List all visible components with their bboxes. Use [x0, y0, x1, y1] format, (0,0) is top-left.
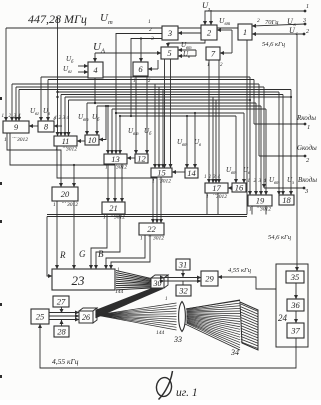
- svg-text:1: 1: [306, 4, 309, 10]
- svg-text:5: 5: [167, 48, 171, 58]
- svg-text:2: 2: [257, 18, 260, 24]
- svg-text:10: 10: [88, 135, 97, 145]
- svg-text:36: 36: [290, 300, 300, 310]
- svg-text:Вкоды: Вкоды: [298, 176, 317, 184]
- svg-text:1: 1: [2, 114, 5, 119]
- svg-text:26: 26: [82, 313, 90, 322]
- svg-text:А: А: [100, 48, 105, 55]
- svg-text:29: 29: [205, 274, 214, 284]
- svg-text:т: т: [108, 19, 113, 26]
- svg-text:вт: вт: [133, 132, 139, 137]
- svg-text:3012: 3012: [152, 236, 164, 242]
- svg-text:иг. 1: иг. 1: [176, 387, 198, 399]
- svg-text:22: 22: [147, 224, 156, 234]
- svg-text:1: 1: [4, 137, 7, 143]
- svg-text:3: 3: [150, 36, 154, 42]
- svg-text:3012: 3012: [16, 137, 28, 143]
- svg-text:144: 144: [156, 329, 165, 336]
- svg-text:2: 2: [306, 29, 309, 35]
- svg-text:···: ···: [61, 201, 66, 207]
- svg-text:3012: 3012: [65, 147, 77, 153]
- svg-text:1: 1: [55, 147, 58, 153]
- svg-text:1: 1: [165, 297, 168, 302]
- svg-text:18: 18: [282, 195, 291, 205]
- svg-text:1: 1: [53, 202, 56, 208]
- svg-text:в: в: [248, 171, 250, 176]
- svg-text:1: 1: [148, 19, 151, 25]
- svg-text:20: 20: [61, 189, 70, 199]
- svg-text:14: 14: [187, 168, 196, 178]
- svg-text:з: з: [291, 181, 294, 186]
- svg-text:1: 1: [105, 165, 108, 171]
- svg-text:37: 37: [290, 326, 300, 336]
- svg-text:3012: 3012: [159, 179, 171, 185]
- svg-text:3012: 3012: [259, 207, 271, 213]
- svg-text:12: 12: [137, 154, 146, 164]
- svg-text:1: 1: [207, 63, 210, 68]
- svg-text:34: 34: [230, 348, 239, 357]
- svg-text:G: G: [79, 249, 86, 259]
- svg-text:Gкоды: Gкоды: [297, 144, 317, 152]
- svg-text:16: 16: [235, 183, 244, 193]
- svg-text:1: 1: [117, 268, 120, 273]
- svg-text:3012: 3012: [113, 215, 125, 221]
- svg-text:1: 1: [249, 207, 252, 213]
- svg-text:54,6 кГц: 54,6 кГц: [262, 41, 286, 48]
- svg-text:70Гц: 70Гц: [265, 19, 279, 26]
- svg-text:23: 23: [72, 273, 86, 288]
- svg-text:25: 25: [36, 312, 45, 322]
- svg-text:3012: 3012: [66, 202, 78, 208]
- svg-text:вт: вт: [225, 22, 231, 27]
- svg-text:35: 35: [290, 272, 300, 282]
- svg-text:в: в: [199, 143, 201, 148]
- svg-text:1: 1: [243, 27, 247, 37]
- svg-text:1: 1: [206, 194, 209, 200]
- svg-text:144: 144: [115, 288, 124, 295]
- svg-text:з: з: [207, 7, 210, 13]
- svg-text:вт: вт: [274, 181, 280, 186]
- svg-text:3: 3: [167, 28, 172, 38]
- svg-text:28: 28: [57, 327, 66, 337]
- svg-text:1: 1: [307, 124, 310, 131]
- svg-text:R: R: [59, 250, 66, 260]
- svg-text:33: 33: [173, 335, 182, 344]
- svg-text:4,55 кГц: 4,55 кГц: [228, 267, 252, 274]
- svg-text:вг: вг: [68, 70, 72, 75]
- svg-text:27: 27: [57, 297, 66, 307]
- svg-text:1: 1: [152, 179, 155, 185]
- svg-text:3012: 3012: [115, 165, 127, 171]
- svg-text:1: 1: [133, 79, 136, 84]
- svg-text:21: 21: [109, 203, 118, 213]
- svg-text:вт: вт: [182, 143, 188, 148]
- svg-text:вт: вт: [83, 118, 89, 123]
- svg-text:24: 24: [278, 313, 288, 323]
- svg-text:2: 2: [149, 27, 152, 33]
- svg-text:447,28 МГц: 447,28 МГц: [28, 12, 87, 26]
- svg-text:32: 32: [178, 286, 188, 296]
- svg-text:B: B: [98, 249, 104, 259]
- svg-text:4,55 кГц: 4,55 кГц: [52, 357, 79, 366]
- svg-text:1: 1: [140, 236, 143, 242]
- svg-text:1: 1: [103, 215, 106, 221]
- svg-text:1: 1: [248, 179, 251, 184]
- svg-text:30: 30: [153, 279, 162, 288]
- svg-text:Rкоды: Rкоды: [296, 114, 316, 122]
- svg-text:вг: вг: [35, 112, 39, 117]
- svg-text:1: 1: [204, 175, 207, 180]
- svg-text:54,6 кГц: 54,6 кГц: [268, 234, 292, 241]
- svg-text:3012: 3012: [215, 194, 227, 200]
- svg-text:в: в: [188, 55, 190, 60]
- svg-text:31: 31: [178, 260, 188, 270]
- svg-text:в: в: [48, 112, 50, 117]
- svg-text:вт: вт: [231, 171, 237, 176]
